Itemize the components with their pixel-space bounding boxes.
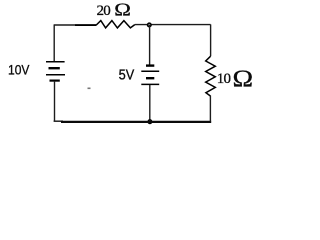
- wire resistor left lead (darker): [75, 24, 96, 26]
- svg-text:5V: 5V: [119, 67, 135, 83]
- stray scan speck: [88, 87, 91, 89]
- resistor R1 20ohm zigzag: [96, 21, 135, 28]
- wire right vertical upper: [210, 24, 212, 56]
- node junction dot bottom: [148, 120, 152, 124]
- wire top-right segment: [135, 24, 211, 26]
- svg-text:20: 20: [97, 3, 111, 19]
- wire bottom thin start: [54, 120, 63, 122]
- battery B2 5V plates: [141, 66, 159, 85]
- wire top-left segment: [54, 24, 96, 26]
- wire bottom: [61, 121, 211, 123]
- svg-text:10: 10: [217, 71, 231, 87]
- svg-text:Ω: Ω: [114, 0, 131, 19]
- node junction dot top: [148, 23, 152, 27]
- wire 5V branch lower: [149, 85, 151, 121]
- wire left vertical upper: [53, 24, 55, 61]
- battery B1 10V plates: [46, 62, 65, 81]
- wire 5V branch upper: [149, 25, 151, 65]
- wire right vertical lower: [209, 96, 211, 122]
- svg-text:Ω: Ω: [233, 65, 254, 92]
- svg-text:10V: 10V: [8, 62, 30, 78]
- wire left vertical lower: [54, 81, 56, 121]
- resistor R2 10ohm zigzag: [206, 56, 216, 96]
